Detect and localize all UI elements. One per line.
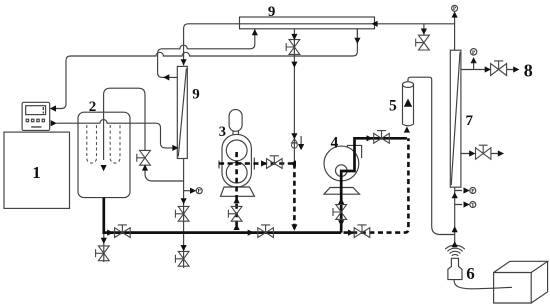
svg-text:P: P <box>471 189 475 195</box>
svg-text:P: P <box>198 189 202 195</box>
svg-text:9: 9 <box>192 86 200 102</box>
svg-text:T: T <box>471 203 475 209</box>
svg-text:9: 9 <box>268 4 276 20</box>
svg-text:1: 1 <box>32 163 41 182</box>
svg-text:7: 7 <box>465 113 473 129</box>
svg-text:3: 3 <box>219 124 226 140</box>
svg-text:2: 2 <box>89 99 97 115</box>
svg-text:5: 5 <box>389 98 397 115</box>
svg-text:8: 8 <box>524 60 533 80</box>
svg-text:6: 6 <box>466 264 475 283</box>
svg-text:4: 4 <box>331 135 339 152</box>
